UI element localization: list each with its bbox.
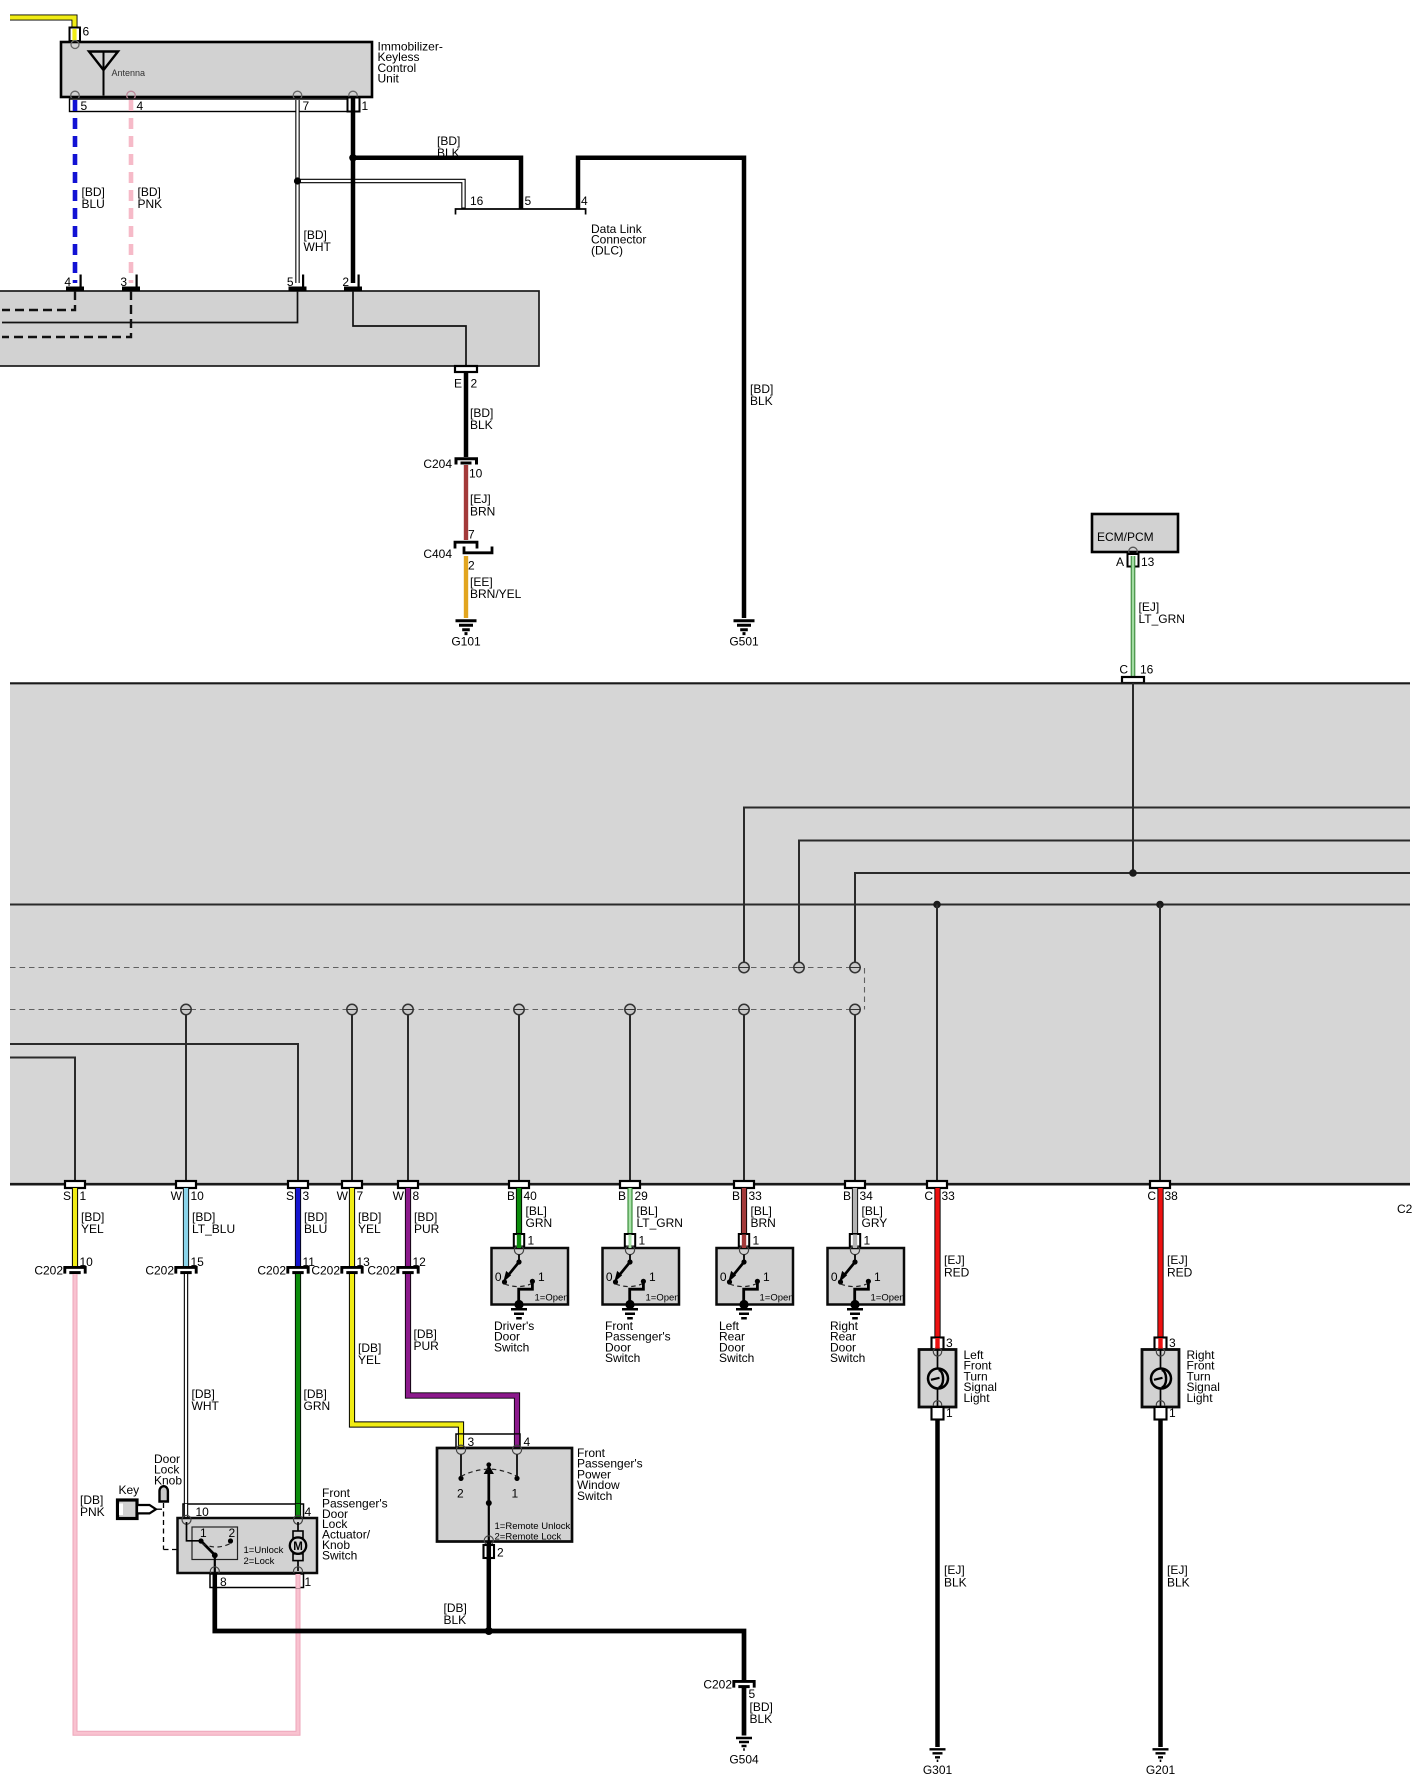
band bottom pin bars bbox=[65, 1181, 1170, 1188]
bus wire 1 bbox=[744, 808, 1410, 963]
wire C16 line inside band bbox=[1132, 683, 1134, 873]
svg-text:Knob: Knob bbox=[154, 1473, 182, 1487]
wire S3 L-run bbox=[10, 1044, 298, 1181]
wire [DB] GRN C202-11 to actuator pin 4 bbox=[298, 1274, 330, 1519]
svg-text:GRN: GRN bbox=[304, 1399, 331, 1413]
svg-text:2: 2 bbox=[229, 1526, 236, 1540]
svg-text:YEL: YEL bbox=[358, 1222, 381, 1236]
svg-text:LT_GRN: LT_GRN bbox=[1139, 612, 1185, 626]
wire [BD] WHT pin7 down bbox=[295, 100, 299, 283]
fusebox internal dashed wire from pin 3 bbox=[2, 291, 131, 337]
svg-text:(DLC): (DLC) bbox=[591, 243, 623, 257]
wire [DB] BLK actuator pin 8 to C202-5 bbox=[215, 1588, 744, 1680]
svg-text:8: 8 bbox=[413, 1189, 420, 1203]
svg-text:2: 2 bbox=[457, 1487, 464, 1501]
front passenger's power window switch box bbox=[437, 1448, 572, 1542]
connector C204 bbox=[423, 457, 482, 481]
svg-text:34: 34 bbox=[860, 1189, 874, 1203]
wire [DB] WHT C202-15 to actuator pin 10 bbox=[186, 1274, 219, 1506]
svg-text:M: M bbox=[293, 1541, 303, 1553]
wire [EJ] RED C38 to right front turn signal light bbox=[1161, 1188, 1193, 1339]
fusebox internal wire pin 2 to E2 bbox=[353, 291, 466, 366]
svg-text:B: B bbox=[843, 1189, 851, 1203]
wire [BD] BLK pin1 to fusebox pin2 bbox=[351, 98, 356, 283]
svg-text:Switch: Switch bbox=[577, 1489, 612, 1503]
svg-text:C: C bbox=[1119, 663, 1128, 677]
connector C202 pin 13 bbox=[311, 1255, 370, 1278]
purple wire overlay through strip bbox=[514, 1435, 520, 1449]
svg-text:C202: C202 bbox=[257, 1264, 286, 1278]
wire inside from pin 10 to contact 1 bbox=[187, 1522, 202, 1541]
svg-text:16: 16 bbox=[1140, 663, 1154, 677]
fusebox pin 4 bar connector bbox=[64, 275, 84, 292]
svg-text:WHT: WHT bbox=[304, 240, 332, 254]
ground G101 bbox=[451, 621, 481, 649]
svg-text:C: C bbox=[924, 1189, 933, 1203]
fusebox internal wire from pin 5 bbox=[2, 291, 298, 323]
entry circles pins 10 and 4 bbox=[182, 1515, 191, 1524]
connector C202 pin 10 bbox=[34, 1255, 93, 1278]
fusebox pin 5 bar connector bbox=[287, 275, 307, 292]
svg-text:LT_BLU: LT_BLU bbox=[192, 1222, 235, 1236]
wire B34 drop bbox=[854, 1015, 856, 1182]
svg-text:16: 16 bbox=[470, 194, 484, 208]
svg-text:C202: C202 bbox=[145, 1264, 174, 1278]
bus wire 2 bbox=[799, 841, 1410, 963]
pink wire overlay through bottom strip bbox=[296, 1574, 301, 1588]
svg-text:33: 33 bbox=[942, 1189, 956, 1203]
large harness gray band bbox=[10, 683, 1410, 1184]
data link connector DLC bracket bbox=[456, 194, 647, 257]
wire W7 drop bbox=[351, 1015, 353, 1182]
svg-text:C202: C202 bbox=[367, 1264, 396, 1278]
lever arm bbox=[201, 1541, 215, 1555]
svg-text:1: 1 bbox=[200, 1526, 207, 1540]
wire [BD] BLK DLC pin 4 to G501 bbox=[578, 158, 744, 618]
svg-text:G301: G301 bbox=[923, 1763, 953, 1777]
svg-text:C404: C404 bbox=[423, 547, 452, 561]
svg-text:10: 10 bbox=[191, 1189, 205, 1203]
harness connector bubbles upper dashed line bbox=[739, 962, 860, 972]
svg-text:4: 4 bbox=[64, 275, 71, 289]
svg-text:BLK: BLK bbox=[944, 1576, 967, 1590]
svg-text:1: 1 bbox=[362, 99, 369, 113]
svg-text:Light: Light bbox=[1187, 1391, 1214, 1405]
wire [DB] BLK window switch pin 2 down bbox=[487, 1558, 492, 1631]
immobilizer-keyless control unit box bbox=[61, 42, 372, 97]
fusebox internal dashed wire from pin 4 bbox=[2, 291, 75, 310]
svg-text:BLK: BLK bbox=[470, 418, 493, 432]
wire [BL] GRY B34 to right rear door switch bbox=[855, 1188, 887, 1236]
wire [BD] PUR W8 to C202-12 bbox=[408, 1188, 440, 1266]
svg-text:10: 10 bbox=[469, 467, 483, 481]
front passenger's door switch bbox=[603, 1234, 680, 1366]
svg-text:7: 7 bbox=[357, 1189, 364, 1203]
svg-text:WHT: WHT bbox=[192, 1399, 220, 1413]
right front turn signal light bbox=[1142, 1336, 1220, 1420]
junction dot C33 bbox=[933, 901, 941, 909]
wire to C33 pin bbox=[936, 905, 938, 1182]
entry circles pins 3 and 4 bbox=[456, 1445, 465, 1454]
svg-text:C202: C202 bbox=[703, 1678, 732, 1692]
svg-text:Switch: Switch bbox=[605, 1351, 640, 1365]
svg-text:2: 2 bbox=[497, 1546, 504, 1560]
junction dot C16 on bus 3 bbox=[1129, 869, 1137, 877]
wire to C38 pin bbox=[1159, 905, 1161, 1182]
svg-text:8: 8 bbox=[220, 1575, 227, 1589]
svg-text:12: 12 bbox=[413, 1255, 427, 1269]
svg-text:2: 2 bbox=[471, 377, 478, 391]
svg-text:E: E bbox=[454, 377, 462, 391]
svg-text:S: S bbox=[63, 1189, 71, 1203]
svg-text:BLK: BLK bbox=[750, 1712, 773, 1726]
window switch top pin strip bbox=[456, 1434, 520, 1448]
wire [BD] WHT branch to DLC pin 16 bbox=[298, 181, 464, 209]
front passenger's door lock actuator box bbox=[178, 1518, 318, 1573]
svg-text:5: 5 bbox=[749, 1687, 756, 1701]
actuator bottom pin strip bbox=[210, 1574, 304, 1588]
ground G504 bbox=[729, 1738, 759, 1767]
connector C404 bbox=[423, 528, 492, 573]
wire label [BD] BLK to G501 bbox=[750, 382, 773, 408]
svg-text:4: 4 bbox=[581, 194, 588, 208]
wire [BD] LT_BLU W10 to C202-15 bbox=[186, 1188, 235, 1266]
svg-text:C204: C204 bbox=[423, 457, 452, 471]
svg-text:BLK: BLK bbox=[437, 146, 460, 160]
svg-text:1: 1 bbox=[305, 1575, 312, 1589]
wire [BD] BLU S3 to C202-11 bbox=[298, 1188, 327, 1266]
under-dash fuse/relay box bbox=[0, 291, 539, 366]
connector pin 6 of control unit bbox=[70, 25, 90, 42]
svg-text:LT_GRN: LT_GRN bbox=[637, 1216, 683, 1230]
svg-text:G101: G101 bbox=[451, 635, 481, 649]
wire label [BD] BLU bbox=[82, 185, 105, 211]
svg-text:ECM/PCM: ECM/PCM bbox=[1097, 530, 1154, 544]
svg-text:2=Lock: 2=Lock bbox=[244, 1556, 275, 1567]
svg-text:40: 40 bbox=[524, 1189, 538, 1203]
svg-text:4: 4 bbox=[137, 99, 144, 113]
svg-text:C202: C202 bbox=[311, 1264, 340, 1278]
svg-text:BLU: BLU bbox=[82, 197, 105, 211]
right rear door switch bbox=[828, 1234, 905, 1366]
band pin labels bbox=[63, 1189, 1178, 1203]
wire [DB] YEL C202-13 to window switch pin 3 bbox=[352, 1274, 461, 1449]
junction dot black wire bbox=[349, 154, 357, 162]
connector C202 pin 12 bbox=[367, 1255, 426, 1278]
wire [EE] BRN/YEL C404 to G101 bbox=[464, 556, 468, 618]
svg-text:G504: G504 bbox=[729, 1753, 759, 1767]
wire label [BD] BLK top bbox=[437, 134, 460, 160]
svg-text:BLK: BLK bbox=[1167, 1576, 1190, 1590]
pin 2 connector of window switch bbox=[484, 1542, 505, 1561]
contact dots bbox=[458, 1476, 463, 1481]
svg-text:38: 38 bbox=[1165, 1189, 1179, 1203]
junction dot C38 bbox=[1156, 901, 1164, 909]
svg-text:Switch: Switch bbox=[830, 1351, 865, 1365]
svg-text:W: W bbox=[337, 1189, 349, 1203]
wire S1 L-run bbox=[10, 1058, 75, 1182]
contact drop lines bbox=[460, 1455, 462, 1478]
connector E2 bar bbox=[454, 366, 478, 391]
wire label [BD] WHT bbox=[304, 228, 332, 254]
svg-text:YEL: YEL bbox=[358, 1353, 381, 1367]
svg-text:Switch: Switch bbox=[322, 1548, 357, 1562]
svg-text:2=Remote Lock: 2=Remote Lock bbox=[495, 1532, 562, 1543]
left rear door switch bbox=[717, 1234, 794, 1366]
svg-text:GRN: GRN bbox=[526, 1216, 553, 1230]
svg-text:Switch: Switch bbox=[719, 1351, 754, 1365]
lever to pin 8 bbox=[214, 1555, 216, 1572]
svg-text:10: 10 bbox=[80, 1255, 94, 1269]
svg-text:BRN: BRN bbox=[751, 1216, 776, 1230]
wire [EJ] BLK left light to G301 bbox=[938, 1420, 967, 1748]
actuator top pin strip bbox=[183, 1504, 304, 1518]
junction dot on white wire bbox=[294, 177, 301, 184]
svg-text:2: 2 bbox=[342, 275, 349, 289]
lever with arrow bbox=[487, 1474, 490, 1503]
svg-text:GRY: GRY bbox=[862, 1216, 888, 1230]
svg-text:A: A bbox=[1116, 555, 1124, 569]
key symbol bbox=[118, 1500, 157, 1519]
connector C16 bar bbox=[1119, 663, 1153, 684]
wire B29 drop bbox=[629, 1015, 631, 1182]
svg-text:7: 7 bbox=[303, 99, 310, 113]
svg-text:BLK: BLK bbox=[750, 394, 773, 408]
yellow wire overlay through strip bbox=[458, 1435, 464, 1449]
left front turn signal light bbox=[919, 1336, 997, 1420]
harness connector bubbles lower dashed line bbox=[181, 1004, 860, 1014]
wire label [BD] PNK bbox=[138, 185, 163, 211]
svg-text:2: 2 bbox=[468, 559, 475, 573]
svg-text:33: 33 bbox=[749, 1189, 763, 1203]
svg-text:B: B bbox=[732, 1189, 740, 1203]
wire [BD] BLK branch to DLC pin 5 bbox=[353, 158, 521, 209]
svg-text:S: S bbox=[286, 1189, 294, 1203]
dashed arc between contacts bbox=[202, 1544, 231, 1548]
wire [DB] PNK C202-10 to actuator pin 1 bbox=[75, 1274, 298, 1733]
svg-text:Unit: Unit bbox=[378, 72, 400, 86]
window switch label bbox=[577, 1446, 643, 1503]
motor M bbox=[290, 1522, 306, 1576]
driver's door switch bbox=[492, 1234, 569, 1355]
wire [BD] YEL W7 to C202-13 bbox=[352, 1188, 381, 1266]
svg-text:3: 3 bbox=[303, 1189, 310, 1203]
wire [DB] PUR C202-12 to window switch pin 4 bbox=[408, 1274, 517, 1449]
wire [BD] BLK E2 to C204 bbox=[464, 372, 469, 457]
green wire overlay through strip bbox=[295, 1504, 301, 1519]
wire [EJ] LT_GRN ECM to C16 bbox=[1133, 556, 1185, 678]
wire label [DB] BLK bbox=[444, 1601, 467, 1627]
svg-text:W: W bbox=[171, 1189, 183, 1203]
wire [EJ] RED C33 to left front turn signal light bbox=[938, 1188, 970, 1339]
svg-text:29: 29 bbox=[635, 1189, 649, 1203]
svg-text:BRN/YEL: BRN/YEL bbox=[470, 587, 522, 601]
svg-text:13: 13 bbox=[1141, 555, 1155, 569]
svg-text:BRN: BRN bbox=[470, 505, 495, 519]
svg-text:1=Remote Unlock: 1=Remote Unlock bbox=[495, 1521, 571, 1532]
wire [BL] BRN B33 to left rear door switch bbox=[744, 1188, 776, 1236]
door lock knob symbol bbox=[160, 1486, 168, 1501]
wire W8 drop bbox=[407, 1015, 409, 1182]
ground G301 bbox=[923, 1749, 953, 1777]
wire B40 drop bbox=[518, 1015, 520, 1182]
dashed arc bbox=[461, 1469, 517, 1476]
svg-text:B: B bbox=[507, 1189, 515, 1203]
ECM/PCM box bbox=[1092, 514, 1178, 556]
contact dots bbox=[198, 1538, 203, 1543]
svg-text:Key: Key bbox=[119, 1483, 140, 1497]
svg-text:W: W bbox=[393, 1189, 405, 1203]
pin entry circles on control unit bbox=[71, 41, 358, 100]
antenna symbol bbox=[89, 52, 145, 96]
actuator label bbox=[322, 1486, 388, 1562]
svg-text:Switch: Switch bbox=[494, 1340, 529, 1354]
svg-text:5: 5 bbox=[525, 194, 532, 208]
svg-text:B: B bbox=[618, 1189, 626, 1203]
wire B33 drop bbox=[743, 1015, 745, 1182]
control unit bottom pin strip bbox=[70, 99, 349, 112]
svg-text:5: 5 bbox=[81, 99, 88, 113]
wire [BD] YEL into antenna pin 6 bbox=[10, 18, 75, 41]
svg-text:5: 5 bbox=[287, 275, 294, 289]
mechanical dashed link key/knob to lock switch bbox=[157, 1503, 189, 1550]
fusebox pin 3 bar connector bbox=[120, 275, 140, 292]
svg-text:YEL: YEL bbox=[81, 1222, 104, 1236]
black wire overlay through bottom strip bbox=[213, 1574, 218, 1588]
knob switch inner box bbox=[192, 1527, 238, 1560]
ground G501 bbox=[729, 621, 759, 649]
lever to pin 2 bbox=[488, 1503, 490, 1541]
svg-text:C: C bbox=[1147, 1189, 1156, 1203]
bus wire 3 bbox=[855, 873, 1410, 962]
junction dot bbox=[485, 1627, 493, 1635]
fusebox pin 2 bar connector bbox=[342, 275, 362, 292]
svg-text:1=Unlock: 1=Unlock bbox=[244, 1545, 284, 1556]
dashed harness line upper bbox=[10, 968, 865, 1010]
svg-text:15: 15 bbox=[191, 1255, 205, 1269]
wire [BD] PNK dashed pin4 to fusebox pin3 bbox=[129, 100, 134, 283]
svg-text:BLK: BLK bbox=[444, 1613, 467, 1627]
wire [BL] GRN B40 to driver's door switch bbox=[519, 1188, 552, 1236]
control unit label bbox=[378, 40, 443, 86]
svg-text:G201: G201 bbox=[1146, 1763, 1176, 1777]
wire [EJ] BLK right light to G201 bbox=[1161, 1420, 1190, 1748]
wire [BL] LT_GRN B29 to front passenger's door switch bbox=[630, 1188, 683, 1236]
svg-text:Light: Light bbox=[964, 1391, 991, 1405]
connector C202 pin 5 bbox=[703, 1678, 755, 1702]
pin number labels 5 4 7 1 bbox=[81, 99, 369, 113]
bus wire 4 full width bbox=[10, 904, 1410, 906]
svg-text:3: 3 bbox=[120, 275, 127, 289]
ground G201 bbox=[1146, 1749, 1176, 1777]
svg-text:Antenna: Antenna bbox=[112, 68, 146, 78]
svg-text:PNK: PNK bbox=[138, 197, 163, 211]
connector pin A13 of ECM bbox=[1116, 554, 1155, 569]
wire [EJ] BRN C204 to C404 bbox=[464, 465, 468, 540]
wire [BD] BLK C202-5 to G504 bbox=[744, 1688, 773, 1736]
svg-text:1: 1 bbox=[512, 1487, 519, 1501]
wire W10 drop bbox=[185, 1015, 187, 1182]
pivot dot bbox=[486, 1500, 492, 1506]
svg-text:PUR: PUR bbox=[414, 1339, 440, 1353]
connector C202 pin 15 bbox=[145, 1255, 204, 1278]
pin 1 connector box bbox=[348, 98, 360, 112]
svg-text:RED: RED bbox=[1167, 1266, 1193, 1280]
svg-text:G501: G501 bbox=[729, 635, 759, 649]
svg-text:PUR: PUR bbox=[414, 1222, 440, 1236]
svg-text:RED: RED bbox=[944, 1266, 970, 1280]
svg-text:1: 1 bbox=[80, 1189, 87, 1203]
svg-text:7: 7 bbox=[468, 528, 475, 542]
white wire overlay through strip bbox=[184, 1504, 188, 1520]
svg-text:6: 6 bbox=[83, 25, 90, 39]
wire [BD] BLU dashed pin5 to fusebox pin4 bbox=[73, 100, 78, 283]
svg-text:C202: C202 bbox=[34, 1264, 63, 1278]
svg-text:BLU: BLU bbox=[304, 1222, 327, 1236]
svg-text:PNK: PNK bbox=[80, 1505, 105, 1519]
dashed harness line lower bbox=[10, 1009, 865, 1011]
door lock knob label bbox=[154, 1452, 182, 1487]
wire [BD] YEL S1 to C202-10 bbox=[75, 1188, 104, 1266]
svg-text:C2: C2 bbox=[1397, 1202, 1413, 1216]
connector C202 pin 11 bbox=[257, 1255, 315, 1278]
